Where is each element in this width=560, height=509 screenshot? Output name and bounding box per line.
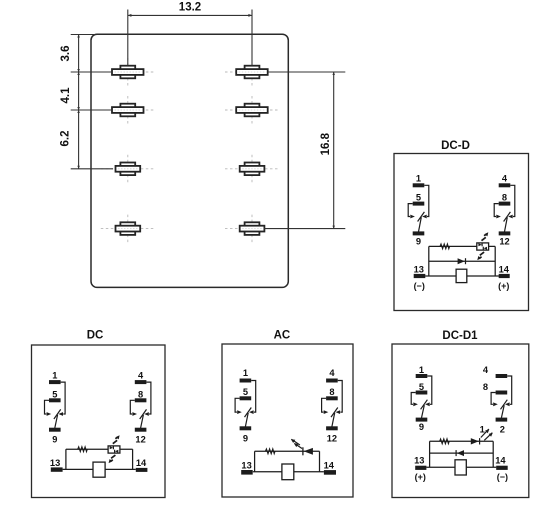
svg-text:5: 5 [419,382,424,392]
svg-text:5: 5 [52,389,57,399]
svg-text:9: 9 [416,236,421,246]
svg-text:12: 12 [327,433,337,443]
svg-text:9: 9 [52,435,57,445]
svg-text:1: 1 [480,424,485,434]
svg-text:4: 4 [483,365,489,375]
svg-text:14: 14 [499,264,510,274]
svg-text:12: 12 [135,435,145,445]
svg-text:DC: DC [87,329,104,341]
svg-text:5: 5 [243,387,248,397]
svg-text:13: 13 [414,456,424,466]
svg-text:4: 4 [138,371,144,381]
svg-text:AC: AC [274,329,291,341]
svg-text:3.6: 3.6 [60,46,72,62]
svg-text:(−): (−) [497,472,508,482]
svg-text:13: 13 [241,461,251,471]
svg-text:1: 1 [419,365,424,375]
svg-text:13: 13 [50,458,60,468]
svg-text:(+): (+) [415,472,426,482]
svg-text:4.1: 4.1 [60,87,72,104]
svg-text:1: 1 [52,371,57,381]
svg-text:1: 1 [416,174,421,184]
svg-text:9: 9 [419,422,424,432]
svg-text:6.2: 6.2 [60,131,72,147]
svg-text:16.8: 16.8 [320,132,332,155]
svg-text:4: 4 [329,368,335,378]
svg-text:8: 8 [502,193,507,203]
svg-text:14: 14 [324,461,335,471]
svg-text:8: 8 [138,389,143,399]
svg-text:14: 14 [136,458,147,468]
svg-text:2: 2 [500,424,505,434]
svg-text:14: 14 [495,455,506,465]
svg-text:(−): (−) [414,281,425,291]
svg-text:4: 4 [502,174,508,184]
svg-text:DC-D: DC-D [441,140,470,152]
svg-text:5: 5 [416,193,421,203]
svg-text:8: 8 [329,387,334,397]
svg-text:12: 12 [499,236,509,246]
svg-text:13: 13 [414,264,424,274]
svg-text:13.2: 13.2 [179,2,201,14]
svg-text:8: 8 [483,382,488,392]
svg-text:(+): (+) [498,281,509,291]
svg-text:DC-D1: DC-D1 [442,330,478,342]
svg-text:9: 9 [243,433,248,443]
svg-text:1: 1 [243,368,248,378]
